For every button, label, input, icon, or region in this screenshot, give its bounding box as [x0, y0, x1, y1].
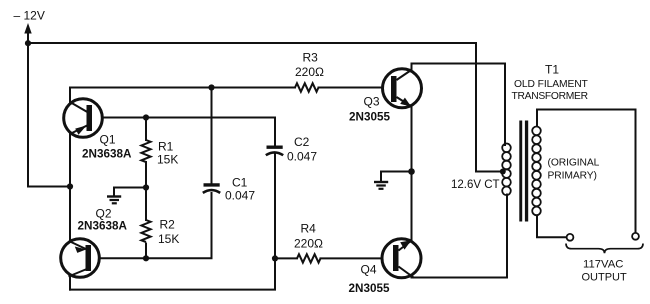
svg-text:Q4: Q4: [361, 263, 377, 277]
wire: Q2 base line to R2 and C1: [99, 193, 212, 258]
wire: primary top lead to right output: [537, 110, 636, 234]
node: -12V rail junction: [25, 40, 31, 46]
node: C1 top junction: [208, 84, 214, 90]
wire: R1 top lead: [145, 118, 147, 141]
brace under output terminals: [566, 244, 643, 254]
wire: primary bottom lead to left output terminal: [537, 215, 567, 238]
svg-text:Q1: Q1: [100, 133, 116, 147]
svg-text:PRIMARY): PRIMARY): [548, 171, 597, 182]
wire: Q1 collector to R3 to Q3 base horizontal: [70, 87, 295, 89]
transformer T1 secondary winding (12.6V CT): [502, 144, 511, 196]
svg-text:12.6V CT: 12.6V CT: [451, 179, 500, 191]
wire: node to R4: [275, 257, 297, 259]
svg-text:R3: R3: [303, 51, 319, 65]
wire: Q4 collector bottom run to secondary bottom: [413, 195, 507, 278]
resistor R2: [141, 220, 150, 242]
node: R1 top / Q1 base: [143, 114, 149, 120]
wire: Q1 base line to C2: [102, 118, 275, 146]
svg-text:C1: C1: [232, 176, 248, 190]
transistor Q3 (NPN 2N3055): [383, 69, 422, 108]
wire: Q3 collector up and over to transformer secondary top: [412, 64, 506, 146]
svg-text:C2: C2: [294, 135, 310, 149]
resistor R3: [295, 83, 319, 91]
wire: C2 bottom lead down to node: [274, 153, 276, 259]
wire: -12V supply arrow stem: [27, 31, 29, 43]
transistor Q4 (NPN 2N3055): [382, 239, 421, 278]
svg-text:15K: 15K: [157, 153, 178, 167]
svg-text:220Ω: 220Ω: [295, 65, 324, 79]
svg-text:2N3638A: 2N3638A: [82, 148, 132, 161]
resistor R1: [141, 140, 150, 162]
node: transformer center tap: [500, 169, 506, 175]
wire: ground branch left of R1/R2 node: [114, 188, 146, 197]
svg-text:Q3: Q3: [364, 95, 380, 109]
wire: Q1/Q2 left column (collector-emitter-emitter-collector): [69, 88, 71, 290]
svg-text:R2: R2: [160, 218, 176, 232]
wire: top -12V rail: [28, 42, 476, 44]
node: R1/R2 ground junction: [143, 184, 149, 190]
wire: ground branch at emitter node: [381, 172, 412, 182]
transistor Q1 (PNP 2N3638A): [64, 99, 103, 138]
wire: R4 to Q4 base: [321, 257, 395, 259]
terminal: output left: [567, 234, 574, 241]
terminal: output right: [632, 233, 639, 240]
svg-text:R4: R4: [301, 222, 317, 236]
wire: top rail down to center tap: [476, 43, 500, 172]
svg-text:OLD FILAMENT: OLD FILAMENT: [514, 79, 589, 90]
svg-text:TRANSFORMER: TRANSFORMER: [512, 91, 588, 102]
wire: R1 bottom lead to ground node: [145, 162, 147, 220]
svg-text:0.047: 0.047: [225, 189, 255, 203]
node: R2 bottom / Q2 base: [143, 255, 149, 261]
svg-text:2N3055: 2N3055: [349, 111, 390, 124]
ground (Q3/Q4 emitters): [374, 182, 388, 189]
svg-text:Q2: Q2: [96, 207, 112, 221]
svg-text:T1: T1: [545, 63, 559, 77]
wire: Q3/Q4 emitter column: [411, 64, 413, 278]
node: C2/R4/Q2 collector junction: [272, 255, 278, 261]
wire: [319, 87, 392, 89]
node: Q3/Q4 emitter ground junction: [408, 168, 415, 175]
wire: left rail down from -12V: [28, 43, 70, 187]
svg-text:117VAC: 117VAC: [583, 259, 623, 271]
ground (R1/R2 divider): [107, 197, 121, 204]
svg-text:OUTPUT: OUTPUT: [582, 272, 628, 284]
resistor R4: [297, 254, 321, 262]
svg-text:0.047: 0.047: [287, 150, 317, 164]
svg-text:(ORIGINAL: (ORIGINAL: [548, 158, 600, 169]
node: emitter tie to -12V: [67, 183, 73, 189]
svg-text:2N3055: 2N3055: [349, 282, 390, 295]
wire: C1 column from top rail junction: [211, 88, 213, 184]
svg-text:220Ω: 220Ω: [294, 237, 323, 251]
svg-text:15K: 15K: [158, 232, 179, 246]
svg-text:R1: R1: [158, 140, 174, 154]
wire: Q2 collector bottom run to C2/R4 node: [70, 258, 275, 289]
svg-text:2N3638A: 2N3638A: [78, 220, 128, 233]
transformer T1 primary winding: [532, 127, 541, 216]
transformer T1 core: [519, 121, 528, 222]
svg-text:– 12V: – 12V: [14, 9, 45, 23]
capacitor C1: [203, 185, 220, 193]
transistor Q2 (PNP 2N3638A): [61, 239, 100, 278]
supply arrow -12V: [24, 23, 31, 34]
capacitor C2: [266, 147, 283, 155]
wire: R2 bottom lead: [145, 244, 147, 259]
